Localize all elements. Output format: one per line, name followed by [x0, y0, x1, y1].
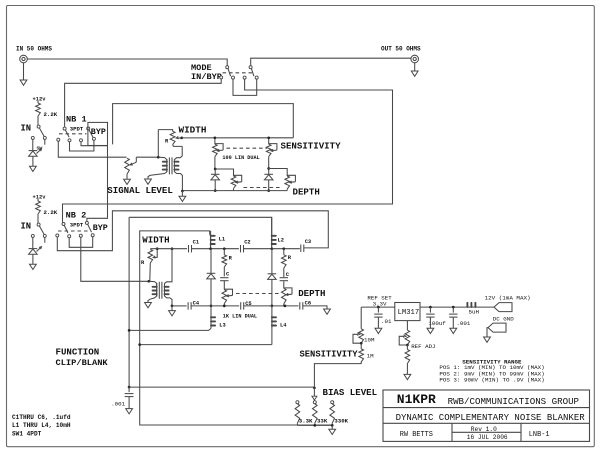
svg-text:NB 1: NB 1: [66, 114, 87, 124]
wire NB1 bottom rail: [182, 190, 287, 192]
node gang A top: [214, 136, 217, 139]
svg-text:NB 2: NB 2: [66, 210, 87, 220]
svg-text:CLIP/BLANK: CLIP/BLANK: [56, 358, 109, 368]
svg-text:10M: 10M: [364, 336, 375, 343]
ground at J2: [414, 63, 416, 71]
svg-text:WIDTH: WIDTH: [142, 234, 169, 245]
svg-text:SENSITIVITY: SENSITIVITY: [300, 349, 359, 359]
svg-text:+12v: +12v: [33, 194, 47, 200]
capacitor C5: [240, 302, 242, 309]
ground bias network: [331, 425, 333, 429]
node .001 tap: [452, 306, 455, 309]
transformer T2: [148, 281, 157, 302]
node bias select: [313, 386, 316, 389]
wire C6 to ground: [303, 306, 327, 309]
switch SW-NB1 pole 2: [87, 127, 90, 130]
capacitor C3: [300, 245, 302, 252]
potentiometer REF ADJ: [406, 321, 408, 331]
node bias cap junction: [128, 386, 131, 389]
svg-text:3.3K: 3.3K: [299, 417, 313, 424]
node D2 bottom: [267, 189, 270, 192]
switch SW-NB1 contacts: [57, 138, 60, 141]
wire 3.3V to divider: [360, 307, 362, 329]
connector flag 12V: [494, 303, 512, 312]
node left rail / L3: [128, 329, 131, 332]
node lower rail A: [214, 168, 217, 171]
wire NB2 contact3 to function rail: [81, 237, 149, 281]
svg-text:RWB/COMMUNICATIONS GROUP: RWB/COMMUNICATIONS GROUP: [448, 396, 579, 407]
svg-text:RW BETTS: RW BETTS: [400, 431, 433, 439]
svg-text:100 LIN DUAL: 100 LIN DUAL: [222, 155, 259, 161]
capacitor C6: [299, 302, 301, 309]
svg-text:C3: C3: [305, 239, 311, 245]
svg-text:REF ADJ: REF ADJ: [411, 343, 435, 350]
ground under T1 secondary: [181, 191, 183, 196]
svg-text:+12v: +12v: [33, 96, 47, 102]
wire bias rail: [129, 386, 314, 388]
wire NB1 contact2 to BYP contact: [70, 140, 94, 151]
node NB2 width wiper: [156, 247, 159, 250]
potentiometer DEPTH (NB2): [283, 281, 285, 288]
svg-text:L2: L2: [278, 237, 284, 243]
node 100uf tap: [429, 306, 432, 309]
switch SW-NB1 gang dashed link: [59, 133, 87, 135]
switch SW-IN2: [37, 214, 39, 223]
diode D4 (NB2): [271, 249, 273, 274]
capacitor C snubber B: [283, 268, 285, 277]
node T1 primary top: [157, 156, 160, 159]
capacitor C1: [188, 245, 190, 252]
node sens-depth rail: [267, 167, 270, 170]
potentiometer WIDTH (NB2): [148, 250, 153, 264]
svg-text:SIGNAL LEVEL: SIGNAL LEVEL: [107, 185, 173, 196]
wire IN to MODE pole1: [27, 59, 227, 66]
wire NB2 contact2 to contact4: [69, 237, 93, 248]
svg-text:3PDT: 3PDT: [70, 221, 84, 228]
diode D1 (NB1): [214, 169, 216, 174]
capacitor C snubber A: [223, 267, 225, 276]
capacitor .001 (bias): [128, 387, 130, 392]
wire MODE return contact to NB sections: [63, 79, 393, 222]
svg-text:DYNAMIC COMPLEMENTARY NOISE BL: DYNAMIC COMPLEMENTARY NOISE BLANKER: [396, 413, 586, 423]
potentiometer SIGNAL LEVEL: [125, 158, 130, 174]
svg-text:WIDTH: WIDTH: [179, 124, 207, 135]
ground under D-IN1: [32, 156, 34, 166]
capacitor C2: [240, 245, 242, 252]
svg-text:DEPTH: DEPTH: [293, 186, 320, 197]
capacitor .001 (output): [452, 307, 454, 313]
svg-text:12V (1mA MAX): 12V (1mA MAX): [485, 295, 531, 302]
wire 1M to bias select: [314, 362, 361, 388]
switch SW-MODE pole 2: [249, 66, 252, 69]
potentiometer 1K gang A: [223, 281, 225, 290]
switch SW-NB2 contacts: [56, 234, 59, 237]
svg-text:BYP: BYP: [91, 127, 106, 137]
node snubber B top: [282, 247, 285, 250]
switch SW-NB2 gang dashed link: [58, 230, 91, 232]
svg-text:3.3V: 3.3V: [373, 300, 387, 307]
node gang B top: [267, 136, 270, 139]
wire LM317 output rail: [420, 306, 465, 308]
resistor 330K: [331, 401, 334, 404]
svg-text:100uf: 100uf: [428, 320, 446, 327]
wire NB2 left rail (to bias cap): [128, 217, 130, 387]
resistor 1M: [360, 343, 362, 349]
wire MODE IN contact down to NB1 pole: [65, 79, 222, 127]
switch SW-MODE pole 1: [226, 66, 229, 69]
node bias return / L4: [138, 343, 141, 346]
potentiometer WIDTH (NB1): [158, 130, 172, 132]
node T2 primary top: [147, 280, 150, 283]
ground under .001: [128, 397, 130, 409]
inductor L2: [271, 217, 273, 248]
wire NB2 contact1 to C3 return: [57, 211, 328, 251]
svg-text:5uH: 5uH: [469, 309, 480, 316]
svg-text:2.2K: 2.2K: [44, 111, 58, 118]
capacitor 100uf: [429, 307, 431, 313]
svg-text:SW1 4PDT: SW1 4PDT: [12, 431, 42, 438]
resistor under REF ADJ: [406, 345, 408, 350]
switch SW-MODE gang dashed link: [223, 72, 253, 74]
node D3 bottom: [210, 305, 213, 308]
wire L1 bottom rail: [209, 248, 239, 250]
diode D-IN1 with arrow: [32, 140, 34, 151]
box BYP (NB1): [88, 122, 108, 145]
resistor 2.2K (NB1): [37, 101, 39, 103]
switch SW-MODE contacts: [232, 76, 235, 79]
wire gang B to diode D2 column: [268, 157, 270, 169]
svg-text:.01: .01: [381, 318, 392, 325]
potentiometer DEPTH (NB1): [285, 176, 290, 189]
switch SW-NB2 pole 1: [62, 223, 65, 226]
wire width wiper rail: [182, 137, 294, 139]
dashed gang link (NB1 depth pair): [244, 187, 283, 189]
wire WIDTH box edge / bias return rail: [140, 239, 333, 425]
node T1 secondary bottom: [181, 190, 184, 193]
capacitor .01: [377, 307, 379, 313]
wire signal-level wiper to transformer T1: [136, 156, 158, 158]
node L1 bottom: [209, 247, 212, 250]
svg-text:.001: .001: [111, 401, 125, 408]
svg-text:33K: 33K: [317, 417, 328, 424]
switch SW-MODE contact IN: [220, 76, 223, 79]
diode D-IN2 with arrow: [32, 238, 34, 249]
connector J2 OUT: [411, 55, 419, 63]
wire NB2 mid rail: [150, 248, 187, 250]
connector J1 IN: [20, 55, 28, 63]
ground under .01: [377, 317, 379, 328]
wire NB1 contact1 to signal-level pot: [58, 141, 126, 157]
svg-text:BIAS LEVEL: BIAS LEVEL: [323, 387, 378, 398]
wire MODE bypass link contact1-contact2: [233, 79, 257, 95]
potentiometer pot3 (NB1 clip level): [231, 176, 236, 189]
svg-text:DC GND: DC GND: [493, 315, 514, 322]
ground under T2 secondary: [171, 306, 173, 311]
ground under DC GND flag: [487, 328, 488, 337]
svg-text:2.2K: 2.2K: [44, 209, 58, 216]
ground under 100uf: [429, 317, 431, 328]
svg-text:C1THRU C6, .1ufd: C1THRU C6, .1ufd: [12, 414, 71, 421]
ground under REF ADJ resistor: [406, 364, 408, 375]
node D4 bottom: [271, 305, 274, 308]
dashed gang link 1K LIN DUAL: [236, 293, 281, 295]
wire NB2 bottom rail: [172, 305, 187, 307]
node .01 tap: [377, 306, 380, 309]
capacitor C4: [187, 302, 189, 309]
resistor 33K: [313, 401, 316, 404]
wire LM317 input rail: [361, 306, 395, 308]
svg-text:IN/BYP: IN/BYP: [191, 72, 222, 82]
wire rail to DEPTH pot (NB1): [269, 169, 288, 177]
svg-text:3PDT: 3PDT: [70, 125, 84, 132]
ground under T2 primary: [145, 303, 152, 308]
svg-text:Rev 1.0: Rev 1.0: [471, 426, 497, 433]
svg-text:POS 3: 90mV (MIN) TO .9V (MAX): POS 3: 90mV (MIN) TO .9V (MAX): [439, 376, 544, 383]
ground under signal-level pot: [126, 174, 128, 179]
wire NB1 contact3 to BYP box bottom: [81, 142, 108, 146]
inductor L3: [210, 306, 212, 329]
wire rail to pot3 (NB1): [215, 169, 233, 176]
svg-text:DEPTH: DEPTH: [298, 288, 325, 299]
svg-text:OUT 50 OHMS: OUT 50 OHMS: [381, 46, 421, 53]
diode D3 (NB2): [210, 249, 212, 273]
wire MODE pole2 to OUT: [251, 58, 411, 65]
resistor 3.3K: [296, 401, 299, 404]
svg-text:IN 50 OHMS: IN 50 OHMS: [16, 46, 52, 53]
node 33K bottom: [313, 424, 316, 427]
inductor L4: [271, 306, 273, 345]
svg-text:L3: L3: [219, 322, 225, 328]
node T2 secondary bottom: [171, 305, 174, 308]
box WIDTH (NB2) partial: [140, 231, 210, 239]
svg-text:FUNCTION: FUNCTION: [56, 346, 100, 357]
svg-text:L4: L4: [280, 322, 287, 328]
bias selector arrow: [313, 388, 315, 396]
wire gang A bottom to lower rail: [214, 157, 216, 169]
wire L2 to C3: [272, 248, 300, 250]
svg-text:C1: C1: [193, 239, 199, 245]
diode D2 (NB1): [268, 169, 270, 174]
wire junction to transformer T1 primary: [157, 130, 159, 158]
potentiometer 100-LIN-DUAL gang A: [214, 138, 216, 144]
node T2 secondary top: [171, 247, 174, 250]
node bias rail / pot A bottom: [223, 305, 226, 308]
connector flag DC GND: [488, 323, 506, 332]
resistor R snubber B: [283, 249, 285, 255]
svg-text:IN: IN: [21, 124, 32, 134]
ground under T1 primary: [145, 179, 152, 184]
wire NB2 top rail to L2: [129, 217, 272, 234]
title block frame: [383, 390, 590, 441]
ground at J1: [23, 63, 25, 80]
wire to 12V flag: [477, 306, 494, 308]
node depth bottom: [284, 305, 287, 308]
node width wiper: [180, 137, 183, 140]
ground under D-IN2: [32, 254, 34, 264]
node 330K bottom: [331, 424, 334, 427]
svg-text:16 JUL 2006: 16 JUL 2006: [467, 434, 508, 441]
potentiometer SENSITIVITY gang B: [268, 138, 270, 144]
svg-text:LNB-1: LNB-1: [529, 431, 550, 439]
node L2 bottom: [271, 247, 274, 250]
svg-text:L1: L1: [219, 236, 225, 242]
svg-text:IN: IN: [21, 222, 32, 232]
svg-text:C2: C2: [244, 239, 250, 245]
inductor 5uH: [466, 303, 468, 307]
potentiometer 10M: [359, 329, 364, 343]
svg-text:LM317: LM317: [398, 309, 420, 317]
svg-text:N1KPR: N1KPR: [397, 392, 436, 407]
resistor 2.2K (NB2): [37, 199, 39, 201]
regulator U1 LM317: [395, 303, 420, 321]
dashed gang link 100 LIN DUAL: [227, 147, 268, 149]
wire BYP box top to NB1 pots rail: [113, 104, 294, 145]
switch SW-IN1: [37, 116, 39, 125]
svg-text:L1 THRU L4, 10mH: L1 THRU L4, 10mH: [12, 422, 71, 429]
switch SW-NB1 pole 1: [63, 127, 66, 130]
svg-text:1M: 1M: [367, 353, 374, 360]
svg-text:1K LIN DUAL: 1K LIN DUAL: [223, 313, 257, 319]
inductor L1: [210, 231, 212, 249]
svg-text:BYP: BYP: [93, 223, 108, 233]
svg-text:.001: .001: [456, 320, 470, 327]
svg-text:SENSITIVITY: SENSITIVITY: [281, 140, 342, 151]
switch SW-NB2 pole 2: [85, 221, 88, 224]
ground under .001 output: [452, 317, 454, 328]
resistor R snubber A: [223, 249, 225, 255]
transformer T1: [148, 157, 167, 179]
svg-text:330K: 330K: [334, 417, 348, 424]
node D1 bottom: [214, 189, 217, 192]
wire bias resistor commons: [297, 424, 332, 426]
node snubber A top: [223, 247, 226, 250]
wire BYP box to NB2 pole2: [87, 146, 108, 222]
